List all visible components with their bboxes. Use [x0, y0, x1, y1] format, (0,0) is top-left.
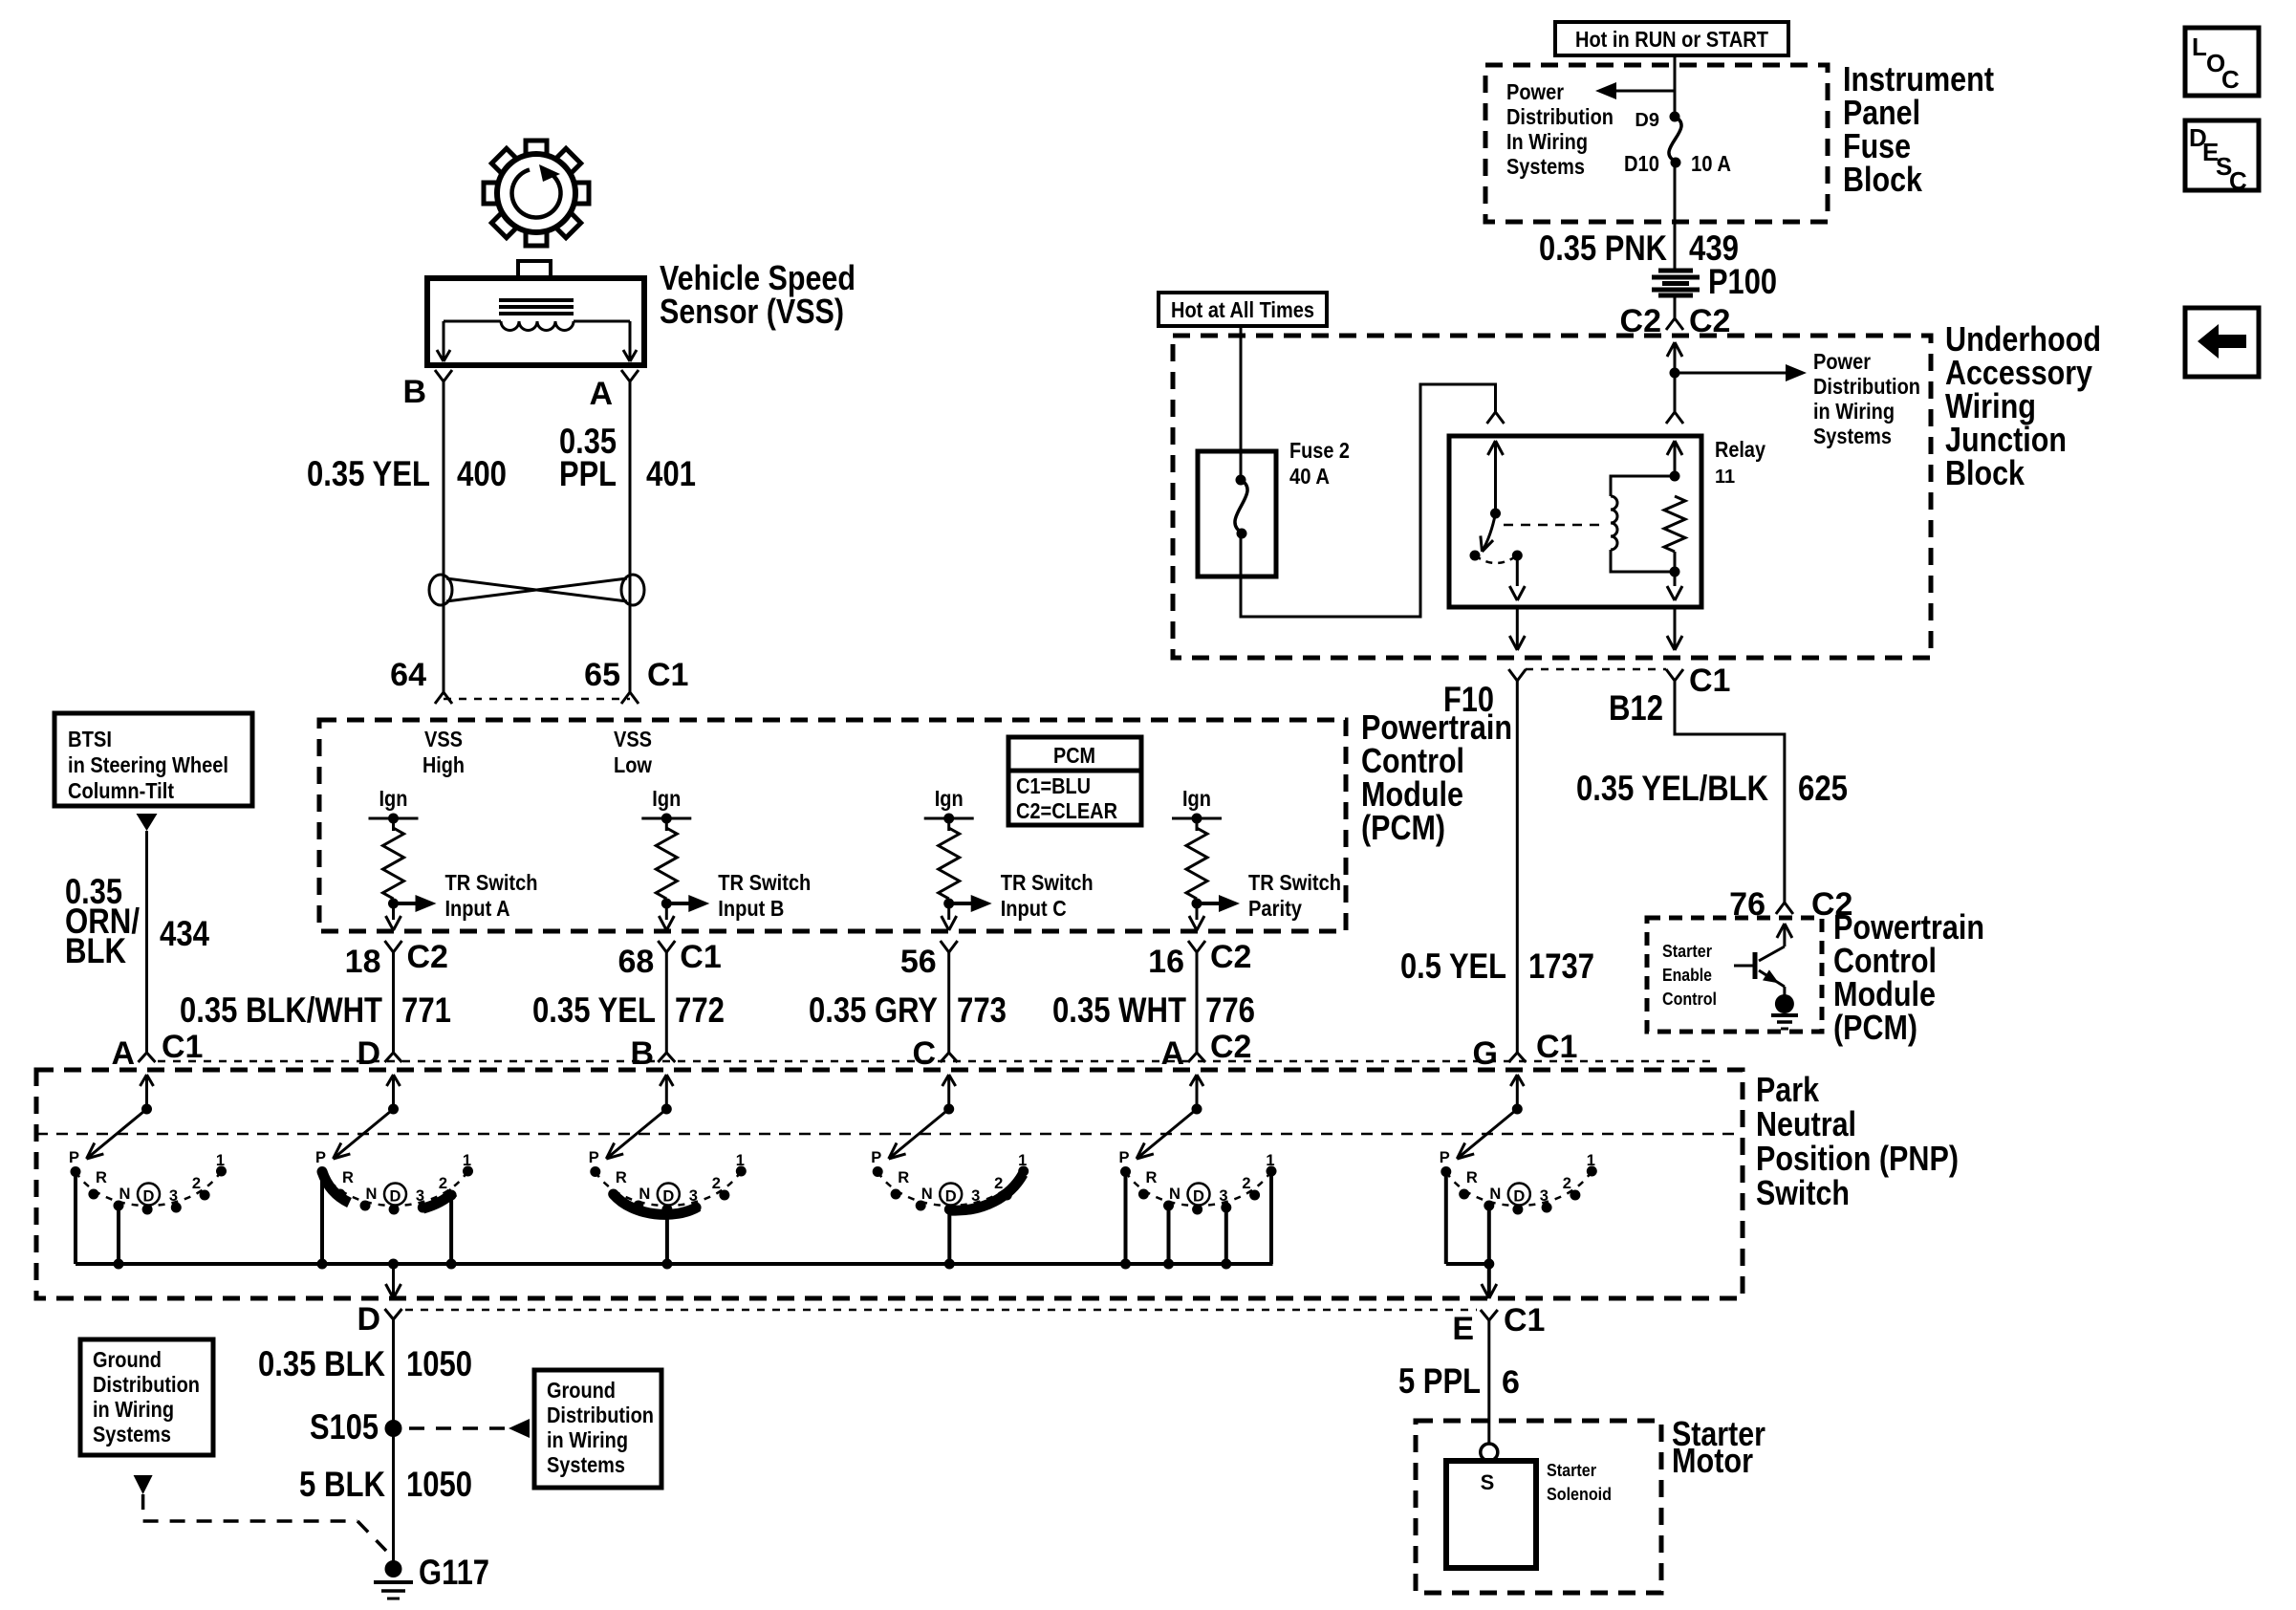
PNP switch S6 contact dots P R N D 3 2 1	[1440, 1166, 1597, 1215]
splice to power distribution	[1670, 364, 1808, 381]
svg-text:Parity: Parity	[1248, 896, 1302, 921]
ground reference dashed path	[143, 1494, 386, 1551]
PCM name label	[1361, 707, 1512, 847]
svg-text:A: A	[1160, 1035, 1184, 1072]
PNP pin A C1 connector	[111, 1029, 203, 1072]
svg-text:High: High	[422, 752, 465, 777]
wire into fuse	[1674, 55, 1677, 117]
VSS pin B connector	[402, 370, 452, 410]
svg-text:in Wiring: in Wiring	[547, 1427, 628, 1452]
relay input connector	[1487, 412, 1505, 424]
svg-text:R: R	[342, 1169, 354, 1186]
svg-text:1: 1	[1587, 1152, 1595, 1169]
PNP switch S5 wiper arm	[1137, 1109, 1197, 1159]
svg-text:Power: Power	[1506, 79, 1564, 104]
starter solenoid label	[1547, 1461, 1612, 1504]
PNP switch S2 entry arrow and junction	[387, 1075, 401, 1115]
PCM exit arrow column 1	[386, 916, 401, 930]
PNP switch S3 position arc	[596, 1171, 742, 1206]
svg-text:(PCM): (PCM)	[1361, 808, 1445, 847]
svg-text:N: N	[119, 1186, 131, 1203]
svg-text:3: 3	[416, 1187, 424, 1205]
svg-text:Power: Power	[1813, 349, 1871, 374]
relay coil	[1611, 476, 1675, 572]
wire 776 label	[1052, 990, 1255, 1030]
svg-text:Starter: Starter	[1662, 942, 1712, 961]
svg-text:C1: C1	[1689, 663, 1730, 699]
svg-text:11: 11	[1715, 467, 1735, 488]
wire 773 label	[809, 990, 1007, 1030]
svg-text:R: R	[898, 1169, 909, 1186]
svg-text:D10: D10	[1624, 151, 1659, 176]
svg-text:771: 771	[401, 990, 451, 1030]
svg-text:BTSI: BTSI	[68, 727, 112, 751]
PCM exit arrow column 4	[1189, 916, 1204, 930]
connector B12 C1	[1609, 663, 1730, 728]
PNP switch S1 contact drop wires	[76, 1172, 124, 1270]
svg-text:0.35 GRY: 0.35 GRY	[809, 990, 938, 1030]
PNP switch S2 contact drop wires	[317, 1172, 457, 1270]
svg-text:Relay: Relay	[1715, 437, 1765, 462]
svg-text:D: D	[1513, 1188, 1525, 1206]
svg-text:L: L	[2192, 33, 2207, 61]
PNP pin D label	[357, 1035, 380, 1072]
svg-text:2: 2	[994, 1175, 1003, 1192]
PNP switch S2 wiper arm	[334, 1109, 394, 1159]
svg-text:P: P	[1440, 1149, 1450, 1166]
PNP switch S3 selected range bold arc	[614, 1194, 699, 1214]
svg-text:776: 776	[1205, 990, 1255, 1030]
underhood label	[1945, 319, 2101, 492]
pull-up resistor R1	[383, 828, 404, 899]
svg-text:5 BLK: 5 BLK	[299, 1465, 385, 1504]
svg-text:Low: Low	[614, 752, 652, 777]
svg-text:N: N	[639, 1186, 650, 1203]
svg-text:R: R	[616, 1169, 627, 1186]
svg-text:Park: Park	[1756, 1070, 1820, 1109]
VSS Low node label	[614, 727, 652, 777]
wire 6 segment	[1487, 1320, 1490, 1444]
connector C2 C2	[1620, 303, 1731, 339]
svg-text:401: 401	[646, 454, 696, 493]
transistor Q1 starter enable	[1734, 924, 1792, 1000]
starter motor label	[1672, 1414, 1765, 1480]
power distribution label UH	[1813, 349, 1920, 448]
svg-text:Column-Tilt: Column-Tilt	[68, 778, 174, 803]
PNP switch S2 position arc	[322, 1171, 468, 1206]
DESC icon box	[2185, 120, 2259, 195]
PCM pin 65 connector C1	[584, 657, 688, 704]
svg-text:Solenoid: Solenoid	[1547, 1485, 1612, 1504]
svg-text:C: C	[912, 1035, 936, 1072]
fuse 2 element 40A	[1235, 438, 1350, 577]
svg-text:P: P	[871, 1149, 881, 1166]
fuse 2 box	[1198, 451, 1276, 577]
svg-text:0.35 BLK: 0.35 BLK	[258, 1344, 385, 1383]
ground reference arrow	[134, 1475, 153, 1494]
relay linkage dashed	[1504, 524, 1606, 527]
svg-text:Distribution: Distribution	[547, 1403, 654, 1427]
PNP switch S1 position arc	[76, 1171, 222, 1206]
wire 772 label	[532, 990, 725, 1030]
svg-text:G: G	[1473, 1035, 1498, 1072]
Park Neutral Position switch dashed box	[36, 1070, 1743, 1298]
svg-text:A: A	[589, 376, 613, 412]
svg-text:C1: C1	[680, 939, 721, 975]
PNP switch S2 position labels	[315, 1149, 471, 1206]
relay main input connector	[1666, 373, 1683, 424]
svg-text:Distribution: Distribution	[93, 1372, 200, 1397]
svg-text:C1: C1	[1504, 1302, 1545, 1338]
svg-text:B: B	[630, 1035, 654, 1072]
svg-text:TR Switch: TR Switch	[1001, 870, 1094, 895]
PCM right label	[1833, 907, 1984, 1047]
svg-text:3: 3	[689, 1187, 698, 1205]
svg-text:N: N	[1489, 1186, 1501, 1203]
svg-text:0.35 YEL: 0.35 YEL	[532, 990, 656, 1030]
wire to fuse 2	[1240, 326, 1243, 451]
ground distribution box right	[534, 1370, 661, 1488]
PCM pin 56 connector	[900, 941, 958, 1062]
svg-text:C: C	[2221, 65, 2240, 94]
svg-text:D: D	[143, 1188, 155, 1206]
svg-text:Block: Block	[1843, 160, 1923, 199]
svg-text:Sensor (VSS): Sensor (VSS)	[660, 292, 844, 331]
ground G117	[374, 1553, 489, 1599]
underhood exit B12 arrow	[1667, 607, 1682, 650]
svg-text:C2=CLEAR: C2=CLEAR	[1016, 798, 1117, 823]
svg-text:S105: S105	[310, 1407, 379, 1447]
relay label	[1715, 437, 1765, 488]
svg-text:2: 2	[192, 1175, 201, 1192]
BTSI box	[54, 713, 252, 806]
relay output wire	[1509, 555, 1525, 600]
fuse D9-D10 10A	[1624, 110, 1731, 176]
BTSI arrow	[137, 814, 158, 831]
svg-text:Block: Block	[1945, 453, 2025, 492]
svg-text:2: 2	[712, 1175, 721, 1192]
svg-text:Ign: Ign	[935, 786, 964, 811]
svg-text:G117: G117	[419, 1553, 489, 1592]
svg-text:772: 772	[675, 990, 725, 1030]
PNP switch S4 wiper arm	[889, 1109, 949, 1159]
wire 401 label	[559, 422, 696, 493]
wire 439 segment	[1674, 163, 1677, 269]
TR Switch Input A tap	[388, 870, 538, 921]
PNP switch S3 contact dots P R N D 3 2 1	[590, 1166, 747, 1215]
svg-text:2: 2	[1563, 1175, 1571, 1192]
instrument panel label	[1843, 59, 1994, 199]
power distribution label IP	[1506, 79, 1614, 179]
svg-text:in Wiring: in Wiring	[93, 1397, 174, 1422]
PNP switch S6 position labels	[1440, 1149, 1595, 1206]
PNP switch S4 selected range bold arc	[949, 1174, 1023, 1210]
VSS pickup coil	[437, 300, 637, 361]
svg-text:C1=BLU: C1=BLU	[1016, 773, 1091, 798]
svg-text:D: D	[357, 1301, 380, 1338]
PNP switch S5 position labels	[1118, 1149, 1274, 1206]
starter enable label	[1662, 942, 1717, 1009]
PNP switch S6 N drop output	[1484, 1206, 1494, 1298]
svg-text:65: 65	[584, 657, 620, 693]
svg-text:TR Switch: TR Switch	[718, 870, 811, 895]
svg-text:VSS: VSS	[614, 727, 652, 751]
relay coil branch wire	[1667, 441, 1682, 482]
back arrow icon box	[2185, 308, 2259, 377]
PNP switch S1 entry arrow and junction	[141, 1075, 154, 1115]
PNP pin B label	[630, 1035, 654, 1072]
PNP switch S1 position labels	[69, 1149, 225, 1206]
PNP exit arrow E	[1482, 1284, 1497, 1298]
PNP switch S3 position labels	[589, 1149, 745, 1206]
svg-text:TR Switch: TR Switch	[445, 870, 538, 895]
wire 625 segment	[1675, 681, 1785, 903]
TR Switch Input C tap	[943, 870, 1093, 921]
relay resistor	[1664, 496, 1685, 577]
svg-text:Neutral: Neutral	[1756, 1104, 1856, 1143]
svg-text:10 A: 10 A	[1691, 151, 1731, 176]
PNP switch S5 position arc	[1126, 1171, 1272, 1206]
wire C2 segment	[1674, 295, 1677, 318]
svg-text:Starter: Starter	[1547, 1461, 1596, 1480]
svg-text:0.35 WHT: 0.35 WHT	[1052, 990, 1186, 1030]
underhood exit F10 arrow	[1509, 607, 1525, 650]
relay switch contacts	[1470, 551, 1523, 564]
svg-text:B: B	[402, 374, 426, 410]
svg-text:Position (PNP): Position (PNP)	[1756, 1139, 1959, 1178]
PNP name label	[1756, 1070, 1959, 1212]
wire 771 label	[180, 990, 451, 1030]
PNP switch S6 wiper arm	[1457, 1109, 1517, 1159]
svg-text:D: D	[357, 1035, 380, 1072]
svg-text:1050: 1050	[406, 1344, 472, 1383]
svg-text:In Wiring: In Wiring	[1506, 129, 1588, 154]
PNP bottom connector row dashed line	[405, 1309, 1477, 1312]
svg-text:N: N	[366, 1186, 378, 1203]
PNP switch S4 contact drop wires	[944, 1209, 955, 1270]
svg-text:1: 1	[1018, 1152, 1027, 1169]
svg-text:in Wiring: in Wiring	[1813, 399, 1895, 424]
starter solenoid box	[1446, 1461, 1536, 1568]
svg-text:Systems: Systems	[547, 1452, 625, 1477]
svg-text:P: P	[1118, 1149, 1129, 1166]
svg-text:Hot at All Times: Hot at All Times	[1171, 297, 1314, 322]
PNP switch S1 contact dots P R N D 3 2 1	[71, 1166, 227, 1215]
svg-text:Systems: Systems	[1813, 424, 1892, 448]
svg-text:P: P	[69, 1149, 79, 1166]
svg-text:68: 68	[617, 944, 654, 980]
svg-text:P100: P100	[1708, 262, 1777, 301]
svg-text:E: E	[1452, 1311, 1474, 1347]
svg-text:1: 1	[1266, 1152, 1274, 1169]
wire 400 label	[307, 454, 507, 493]
PNP switch S3 contact drop wires	[661, 1209, 672, 1270]
Ign feed node column 3	[924, 786, 974, 831]
svg-text:P: P	[589, 1149, 599, 1166]
PNP pin C label	[912, 1035, 936, 1072]
VSS label	[660, 258, 856, 331]
PNP pin D bottom connector	[357, 1301, 401, 1338]
connector 76 C2	[1729, 886, 1852, 923]
svg-text:3: 3	[1219, 1187, 1227, 1205]
relay switch input arrow	[1488, 441, 1504, 519]
svg-text:(PCM): (PCM)	[1833, 1008, 1917, 1047]
pull-up resistor R2	[656, 828, 677, 899]
wire 434 label	[65, 872, 209, 970]
svg-text:2: 2	[439, 1175, 447, 1192]
svg-text:Input B: Input B	[718, 896, 784, 921]
svg-text:PCM: PCM	[1053, 743, 1095, 768]
svg-text:N: N	[1169, 1186, 1180, 1203]
svg-text:6: 6	[1502, 1364, 1520, 1401]
power distribution arrow left	[1595, 82, 1675, 99]
svg-text:Ign: Ign	[652, 786, 681, 811]
PNP common bus	[76, 1171, 1273, 1264]
PNP pin E bottom connector	[1452, 1302, 1545, 1347]
wire 1737 label	[1400, 946, 1594, 986]
svg-text:1: 1	[736, 1152, 745, 1169]
svg-text:Ground: Ground	[93, 1347, 162, 1372]
PNP switch S1 wiper arm	[87, 1109, 147, 1159]
PNP pin G connector	[1473, 1029, 1578, 1072]
vehicle speed sensor gear icon	[484, 141, 589, 246]
svg-text:C2: C2	[407, 939, 448, 975]
wire 401 PPL segment	[629, 381, 632, 692]
Ign feed node column 2	[641, 786, 691, 831]
svg-text:TR Switch: TR Switch	[1248, 870, 1341, 895]
ground inside PCM	[1771, 994, 1798, 1029]
wire 6 label	[1398, 1361, 1520, 1401]
wire fuse2 to relay	[1241, 384, 1496, 617]
wire 434 segment	[145, 831, 148, 1053]
svg-text:0.5 YEL: 0.5 YEL	[1400, 946, 1506, 986]
svg-text:1737: 1737	[1528, 946, 1594, 986]
S2 exit junction dot	[388, 1259, 399, 1270]
svg-text:Ign: Ign	[1182, 786, 1211, 811]
svg-text:1050: 1050	[406, 1465, 472, 1504]
svg-text:B12: B12	[1609, 688, 1663, 728]
svg-text:3: 3	[169, 1187, 178, 1205]
relay box	[1449, 436, 1701, 607]
PCM pin 64 connector	[390, 657, 452, 704]
svg-text:40 A: 40 A	[1289, 464, 1330, 489]
svg-text:Ign: Ign	[379, 786, 408, 811]
svg-text:Input A: Input A	[445, 896, 510, 921]
PCM pin 18 connector	[345, 939, 448, 1062]
connector link F10-B12	[1526, 668, 1666, 671]
PCM exit arrow column 3	[942, 916, 957, 930]
PNP switch S6 position arc	[1446, 1171, 1592, 1206]
PNP switch S4 contact dots P R N D 3 2 1	[873, 1166, 1029, 1215]
PNP connector row dashed line	[158, 1060, 1711, 1063]
svg-text:0.35 YEL: 0.35 YEL	[307, 454, 430, 493]
svg-text:C1: C1	[162, 1029, 203, 1065]
PNP switch S3 wiper arm	[606, 1109, 666, 1159]
wire 400 YEL segment	[443, 381, 445, 692]
PNP switch S6 entry arrow and junction	[1510, 1075, 1524, 1115]
svg-text:56: 56	[900, 944, 937, 980]
svg-text:N: N	[921, 1186, 933, 1203]
svg-text:Input C: Input C	[1001, 896, 1067, 921]
twisted pair symbol	[429, 575, 644, 605]
svg-text:Hot in RUN or START: Hot in RUN or START	[1575, 27, 1768, 52]
wire 1050 upper segment	[392, 1319, 395, 1569]
PNP switch S2 selected range bold arc	[322, 1172, 454, 1209]
svg-text:400: 400	[457, 454, 507, 493]
svg-text:0.35 YEL/BLK: 0.35 YEL/BLK	[1576, 769, 1768, 808]
PNP switch S5 entry arrow and junction	[1190, 1075, 1203, 1115]
wire 1050 lower label	[299, 1465, 472, 1504]
splice S105	[310, 1407, 402, 1447]
svg-text:C1: C1	[647, 657, 688, 693]
wire 1050 upper label	[258, 1344, 472, 1383]
PCM dashed box	[319, 720, 1346, 931]
svg-text:P: P	[315, 1149, 326, 1166]
svg-text:16: 16	[1148, 944, 1184, 980]
svg-text:Ground: Ground	[547, 1378, 616, 1403]
svg-text:F10: F10	[1443, 680, 1494, 719]
svg-text:D: D	[662, 1188, 674, 1206]
pass-through grommet P100	[1652, 262, 1777, 301]
svg-text:PPL: PPL	[559, 454, 617, 493]
TR Switch Input B tap	[661, 870, 812, 921]
PNP inner dashed line	[36, 1133, 1743, 1136]
svg-text:2: 2	[1242, 1175, 1250, 1192]
svg-text:S: S	[1481, 1470, 1495, 1494]
PNP switch S4 entry arrow and junction	[942, 1075, 956, 1115]
pull-up resistor R4	[1186, 828, 1207, 899]
svg-text:D: D	[945, 1188, 957, 1206]
svg-text:C2: C2	[1210, 1029, 1251, 1065]
PNP switch S3 entry arrow and junction	[660, 1075, 673, 1115]
Hot in RUN or START box	[1555, 22, 1788, 55]
underhood junction block dashed box	[1173, 336, 1931, 658]
svg-text:VSS: VSS	[424, 727, 463, 751]
svg-text:D: D	[1193, 1188, 1204, 1206]
svg-text:434: 434	[160, 914, 209, 953]
ground distribution box left	[80, 1339, 213, 1455]
PNP switch S6 P drop	[1446, 1172, 1489, 1265]
svg-text:A: A	[111, 1035, 135, 1072]
PCM pin 68 connector	[617, 939, 721, 1062]
PNP exit wire D	[386, 1264, 401, 1298]
svg-text:5 PPL: 5 PPL	[1398, 1361, 1481, 1401]
starter enable dashed box	[1647, 918, 1822, 1032]
svg-text:R: R	[96, 1169, 107, 1186]
svg-text:Systems: Systems	[1506, 154, 1585, 179]
svg-text:Motor: Motor	[1672, 1441, 1753, 1480]
svg-text:R: R	[1146, 1169, 1158, 1186]
PNP switch S2 contact dots P R N D 3 2 1	[317, 1166, 474, 1215]
PNP switch S4 position labels	[871, 1149, 1027, 1206]
svg-text:Distribution: Distribution	[1506, 104, 1614, 129]
svg-text:0.35 BLK/WHT: 0.35 BLK/WHT	[180, 990, 382, 1030]
svg-text:3: 3	[1540, 1187, 1549, 1205]
starter solenoid terminal	[1481, 1444, 1498, 1461]
starter motor dashed box	[1416, 1421, 1661, 1593]
svg-text:C2: C2	[1210, 939, 1251, 975]
PCM exit arrow column 2	[659, 916, 674, 930]
connector F10	[1443, 669, 1526, 1053]
svg-text:0.35 PNK: 0.35 PNK	[1539, 228, 1667, 268]
svg-text:64: 64	[390, 657, 426, 693]
TR Switch Parity tap	[1192, 870, 1342, 921]
connector link 64-65	[444, 698, 630, 701]
svg-text:Distribution: Distribution	[1813, 374, 1920, 399]
Hot at All Times box	[1159, 293, 1327, 326]
Ign feed node column 4	[1172, 786, 1222, 831]
PNP pin A label	[1160, 1029, 1251, 1072]
